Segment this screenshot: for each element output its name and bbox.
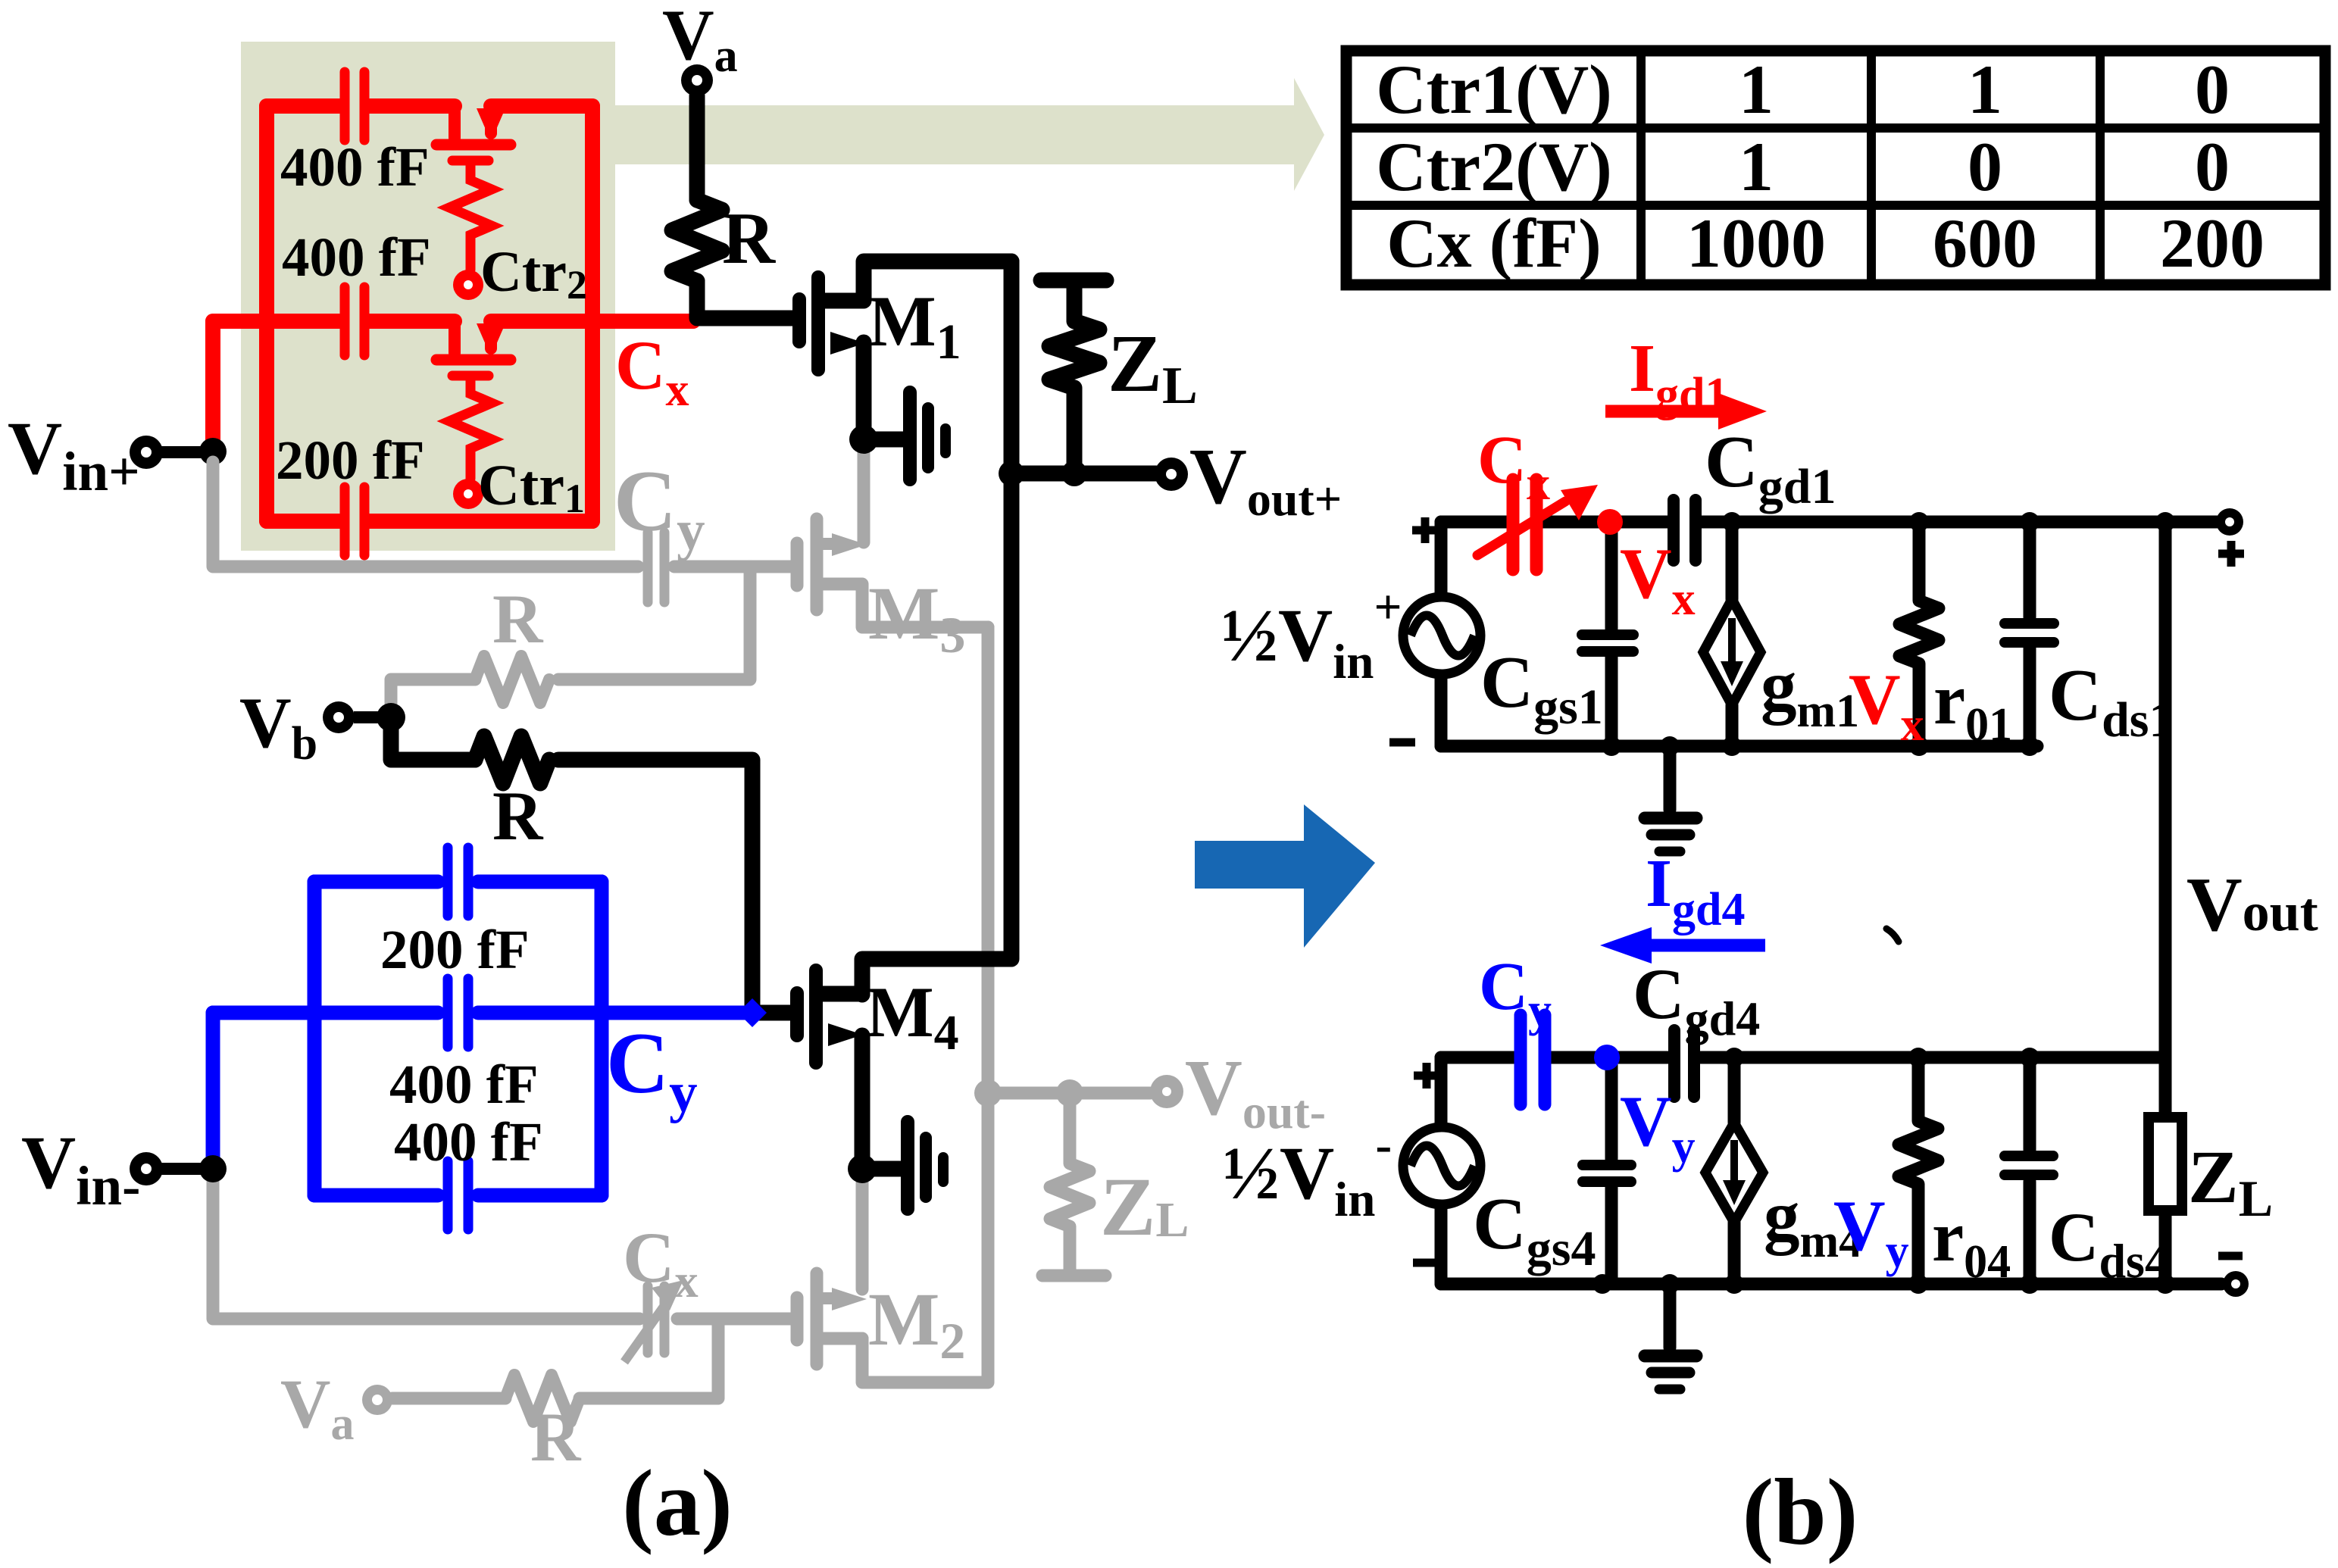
resistor R gray (Va) <box>505 1375 580 1422</box>
wire gray Cy to M3 gate <box>674 561 792 573</box>
switch transistor Ctr2 drain stub <box>449 106 461 138</box>
transistor M1 channel <box>811 277 825 370</box>
polarity plus b-upper <box>1412 517 1438 543</box>
node Vout- dot on column <box>974 1079 1002 1107</box>
wire Vout+ line <box>1011 466 1156 482</box>
wire M4 drain lead <box>822 986 862 1002</box>
wire gray column M3 source to M2 source jog <box>862 627 988 1382</box>
terminal Vout+ circle <box>1155 458 1188 491</box>
transistor M2 gate plate <box>791 1298 804 1340</box>
capacitor Cgd4 plates <box>1668 1030 1680 1097</box>
wire black column Vout+ down to M4 drain <box>862 261 1011 995</box>
svg-text:1: 1 <box>1739 128 1774 205</box>
wire gray from Vin+ node down and right to Cy <box>213 462 638 567</box>
terminal Vb circle <box>323 701 355 733</box>
dependent source gm1 arrow <box>1728 618 1736 665</box>
svg-text:Ctr2(V): Ctr2(V) <box>1376 128 1612 205</box>
wire gray R path from Vb node to M3 gate <box>391 567 750 715</box>
AC source sine wave lower <box>1411 1146 1474 1186</box>
capacitor Cgs4 branch <box>1605 1057 1618 1284</box>
control terminal Ctr2 circle <box>453 270 483 300</box>
ZL gray bottom supply bar <box>1042 1270 1105 1282</box>
svg-text:1: 1 <box>1739 51 1774 128</box>
wire blue bottom rail <box>314 1188 602 1203</box>
switch transistor Ctr2 source lead <box>485 106 497 133</box>
switch transistor Ctr1 channel bar <box>436 355 511 366</box>
svg-text:Ctr1(V): Ctr1(V) <box>1376 51 1612 128</box>
wire b-lower bottom rail <box>1441 1278 2221 1291</box>
wire red mid rail left segment <box>213 314 339 329</box>
resistor r04 branch <box>1899 1057 1938 1284</box>
transistor M1 gate plate <box>792 299 806 342</box>
svg-text:200 fF: 200 fF <box>276 429 425 491</box>
big blue arrow between (a) and (b) <box>1195 804 1375 948</box>
wire M4 bias stub <box>862 1161 902 1177</box>
node Vin+ junction dot <box>199 438 227 465</box>
transistor M2 channel <box>811 1273 824 1364</box>
wire M1 bias stub <box>864 432 903 448</box>
transistor M4 arrow <box>828 1023 863 1046</box>
wire blue top rail <box>314 875 602 889</box>
wire gray from Vin- node down to M2 gate path <box>213 1179 639 1319</box>
node Vb junction dot <box>377 703 405 732</box>
node dots on b-upper bottom rail <box>1602 736 1621 756</box>
wire b-lower top rail <box>1441 1051 2165 1064</box>
wire M1 source column <box>856 342 872 439</box>
svg-text:Cx (fF): Cx (fF) <box>1386 205 1602 282</box>
wire gray M1 source to M3 drain column <box>858 448 870 542</box>
wire Vin+ stub <box>161 446 213 458</box>
impedance ZL branch stem <box>2159 1057 2172 1284</box>
table column line 1 <box>1636 51 1646 285</box>
capacitor 400fF mid (red) <box>340 287 350 355</box>
transistor M3 drain stub <box>823 538 833 550</box>
wire blue left rail <box>308 882 322 1195</box>
wire red mid rail center segment <box>369 314 455 329</box>
transistor M4 channel <box>809 970 823 1063</box>
switch transistor Ctr1 gate resistor <box>449 381 492 479</box>
capacitor Cy blue plates <box>1521 1015 1545 1104</box>
wire gm1 branch <box>1726 522 1739 746</box>
svg-text:0: 0 <box>2195 51 2230 128</box>
wire gray M2 bottom lead <box>823 1332 862 1345</box>
transistor M1 arrow <box>830 332 865 355</box>
svg-text:400 fF: 400 fF <box>394 1111 543 1173</box>
svg-text:200: 200 <box>2160 205 2265 282</box>
wire red bottom rail <box>267 514 592 529</box>
AC source ½Vin- circle <box>1403 1127 1480 1204</box>
wire blue mid rail to M4 gate <box>213 1006 750 1020</box>
table row line 1 <box>1346 123 2325 133</box>
wire red top rail right segment <box>491 98 592 114</box>
polarity minus b-upper <box>1389 739 1415 747</box>
capacitor Cgd1 plates <box>1668 500 1680 561</box>
terminal Vin+ circle <box>130 436 163 469</box>
svg-text:0: 0 <box>1968 128 2002 205</box>
shaded capacitor-bank region box <box>241 42 615 551</box>
capacitor 400fF blue mid <box>443 979 453 1047</box>
wire Vout column <box>2159 522 2172 1057</box>
wire gray M3 source lead <box>823 584 988 627</box>
ground symbol b-upper <box>1645 812 1696 825</box>
node Vin- junction dot <box>199 1155 227 1182</box>
switch transistor Ctr1 drain stub <box>449 321 461 353</box>
svg-text:200 fF: 200 fF <box>380 919 530 980</box>
AC source sine wave <box>1411 616 1474 656</box>
transistor M4 gate plate <box>790 993 804 1035</box>
wire red bank right rail <box>585 106 600 521</box>
svg-text:R: R <box>492 580 544 657</box>
resistor R gray (Vb to M3) <box>475 656 549 703</box>
table column line 2 <box>1867 51 1876 285</box>
capacitor Cgs1 branch <box>1605 522 1618 746</box>
capacitor 200fF bottom (red) <box>340 487 350 555</box>
switch transistor Ctr2 arrow <box>477 108 505 142</box>
capacitor Cds1 branch <box>2024 522 2036 746</box>
ground symbol b-lower <box>1645 1350 1696 1363</box>
capacitor Cy gray plates <box>643 533 653 602</box>
transistor M2 arrow <box>832 1288 867 1310</box>
impedance ZL rectangle <box>2149 1117 2182 1210</box>
wire M1 drain lead and rail <box>824 261 1011 301</box>
control terminal Ctr1 circle <box>453 479 483 509</box>
terminal open circle b-lower <box>2223 1271 2249 1297</box>
switch transistor Ctr2 channel bar <box>436 139 511 151</box>
node dots on b-upper top rail <box>1722 512 1742 532</box>
wire gm4 branch <box>1728 1057 1741 1284</box>
wire blue right rail <box>595 882 609 1195</box>
impedance ZL gray hanging from Vout- <box>1050 1093 1089 1270</box>
wire blue input vertical to Vin- node <box>206 1013 220 1169</box>
terminal Vin- circle <box>130 1152 163 1185</box>
wire M4 gate <box>750 1005 792 1021</box>
switch transistor Ctr1 gate bar <box>452 371 489 381</box>
wire gray M2 drain column from M4 source <box>856 1179 869 1289</box>
table column line 3 <box>2096 51 2105 285</box>
current arrow Igd4 blue <box>1652 939 1765 952</box>
transistor M3 gate plate <box>791 543 804 586</box>
node blue diamond junction at M4 gate <box>738 998 767 1027</box>
capacitor 400fF top (red) <box>340 72 350 140</box>
svg-text:400 fF: 400 fF <box>389 1054 539 1115</box>
svg-text:0: 0 <box>2195 128 2230 205</box>
dependent source gm1Vx diamond <box>1703 599 1761 705</box>
varactor Cx red plates <box>1513 479 1536 570</box>
wire gray varactor to M2 gate <box>677 1313 792 1326</box>
svg-text:1: 1 <box>1968 51 2002 128</box>
switch transistor Ctr2 gate resistor <box>449 166 492 270</box>
switch transistor Ctr1 arrow <box>477 323 505 357</box>
wire b-upper bottom rail <box>1441 740 2037 753</box>
svg-text:1000: 1000 <box>1686 205 1826 282</box>
wire red top rail center segment <box>369 98 455 114</box>
capacitor Cds4 branch <box>2024 1057 2036 1284</box>
node Vout- dot at ZL <box>1056 1079 1083 1107</box>
node Vout+ dot at ZL <box>1061 461 1087 486</box>
wire Vin- stub <box>161 1163 213 1175</box>
wire gray Va branch <box>392 1319 718 1398</box>
wire red mid rail right segment to Cx node <box>491 314 693 329</box>
capacitor Cgs4 plates <box>1583 1160 1631 1170</box>
capacitor Cds1 plates <box>2005 618 2054 629</box>
resistor R (Va to M1 gate) <box>672 200 722 281</box>
polarity plus at vout terminal <box>2218 541 2244 567</box>
node Vx red dot <box>1597 509 1623 535</box>
wire Vb black path to M4 gate column <box>391 720 752 1009</box>
stray tick mark <box>1886 929 1899 942</box>
wire gray Vout- line <box>988 1087 1150 1100</box>
transistor M3 channel <box>811 519 824 610</box>
terminal Va circle <box>681 64 713 96</box>
table row line 2 <box>1346 201 2325 210</box>
polarity minus b-lower <box>1413 1259 1439 1267</box>
shaded arrow band to table <box>615 105 1294 164</box>
terminal Vout- circle <box>1150 1075 1183 1108</box>
svg-text:(a): (a) <box>622 1451 733 1556</box>
impedance ZL black stem <box>1049 287 1099 473</box>
transistor M2 drain stub <box>823 1292 833 1304</box>
terminal Va wire down <box>689 95 705 200</box>
resistor r01 branch <box>1899 522 1939 746</box>
transistor M3 arrow <box>832 533 867 556</box>
switch transistor Ctr1 source lead <box>485 321 497 348</box>
svg-text:(b): (b) <box>1743 1460 1858 1565</box>
wire Vb stub <box>354 711 391 723</box>
wire ground stem b-lower <box>1664 1284 1677 1348</box>
terminal Va gray circle <box>362 1385 392 1415</box>
capacitor Cgs1 plates <box>1582 629 1633 640</box>
node Vy blue dot <box>1594 1045 1620 1070</box>
wire red input vertical from Vin+ node <box>205 321 220 451</box>
bias supply symbol at M1 source <box>903 392 917 479</box>
capacitor 400fF blue bottom <box>443 1161 453 1229</box>
wire red top rail left segment <box>267 98 339 114</box>
terminal vout+ open circle b-upper <box>2216 508 2243 536</box>
svg-text:R: R <box>492 777 544 854</box>
svg-text:400 fF: 400 fF <box>280 136 430 198</box>
svg-text:R: R <box>530 1398 582 1476</box>
wire b-lower left rail <box>1435 1057 1448 1284</box>
varactor Cx red arrow <box>1477 501 1565 555</box>
polarity plus b-lower <box>1414 1063 1439 1089</box>
bias supply symbol at M4 source <box>901 1122 914 1209</box>
current arrow Igd1 red <box>1605 405 1721 418</box>
wire M4 source column <box>855 1035 870 1169</box>
switch transistor Ctr2 gate bar <box>452 156 489 166</box>
node dots on b-lower bottom rail <box>1593 1274 1612 1294</box>
wire Va R to M1 gate <box>697 281 792 318</box>
svg-text:400 fF: 400 fF <box>282 226 431 288</box>
svg-text:600: 600 <box>1933 205 2037 282</box>
ZL black top supply bar <box>1041 273 1106 289</box>
wire b-upper left rail <box>1435 522 1448 746</box>
table outer border <box>1346 51 2325 285</box>
resistor R black (Vb to M4) <box>475 736 549 783</box>
polarity minus at terminal <box>2218 1252 2243 1260</box>
wire ground stem b-upper <box>1664 746 1677 810</box>
varactor Cx gray arrow <box>624 1304 665 1362</box>
node M1 source junction dot <box>849 425 878 454</box>
AC source ½Vin+ circle <box>1403 597 1480 674</box>
node Vout+ dot left <box>999 461 1024 486</box>
wire red bank left rail <box>259 106 274 521</box>
dependent source gm4Vy diamond <box>1705 1123 1763 1223</box>
svg-text:R: R <box>722 198 776 279</box>
wire b-upper top rail <box>1441 516 2217 529</box>
node dots on b-lower top rail <box>1724 1048 1744 1067</box>
shaded arrow head <box>1294 78 1324 191</box>
capacitor Cds4 plates <box>2005 1151 2053 1161</box>
node M4 source junction dot <box>848 1154 877 1183</box>
varactor Cx gray plates <box>643 1286 653 1353</box>
capacitor 200fF blue top <box>443 848 453 916</box>
dependent source gm4 arrow <box>1730 1140 1738 1184</box>
